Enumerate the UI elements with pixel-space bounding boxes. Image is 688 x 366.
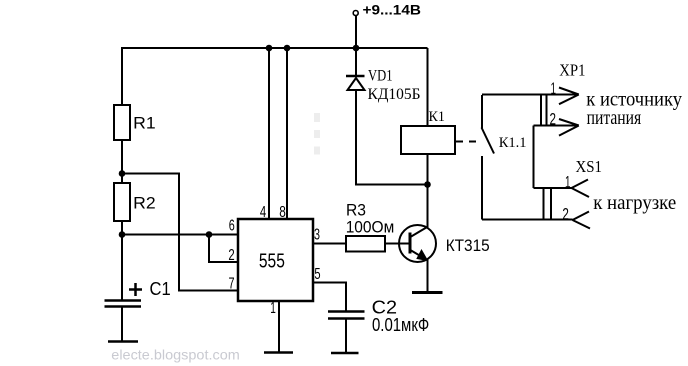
svg-text:3: 3: [314, 227, 320, 244]
svg-text:К1: К1: [429, 109, 445, 125]
svg-text:R1: R1: [133, 114, 156, 133]
svg-text:4: 4: [260, 204, 267, 221]
svg-text:electe.blogspot.com: electe.blogspot.com: [111, 347, 240, 363]
svg-text:R2: R2: [133, 194, 156, 213]
svg-text:7: 7: [229, 276, 235, 293]
svg-text:2: 2: [562, 205, 569, 224]
svg-text:2: 2: [549, 110, 556, 129]
svg-text:555: 555: [259, 251, 285, 273]
svg-text:R3: R3: [346, 202, 366, 220]
svg-text:VD1: VD1: [368, 68, 393, 85]
svg-text:к нагрузке: к нагрузке: [593, 192, 676, 214]
svg-text:КД105Б: КД105Б: [368, 86, 421, 103]
svg-text:+9...14В: +9...14В: [363, 1, 422, 17]
svg-text:XP1: XP1: [559, 61, 585, 80]
svg-text:8: 8: [279, 204, 286, 221]
svg-text:К1.1: К1.1: [499, 135, 527, 151]
svg-text:6: 6: [229, 218, 235, 235]
svg-text:2: 2: [228, 247, 234, 264]
svg-text:1: 1: [565, 173, 571, 192]
svg-text:0.01мкФ: 0.01мкФ: [372, 315, 429, 335]
svg-text:КТ315: КТ315: [446, 236, 490, 255]
svg-text:1: 1: [551, 79, 557, 98]
svg-text:XS1: XS1: [576, 157, 603, 176]
svg-text:питания: питания: [587, 107, 642, 129]
svg-text:1: 1: [270, 300, 276, 317]
svg-text:100Ом: 100Ом: [346, 219, 395, 237]
svg-text:C1: C1: [150, 279, 171, 299]
svg-text:5: 5: [314, 266, 320, 283]
